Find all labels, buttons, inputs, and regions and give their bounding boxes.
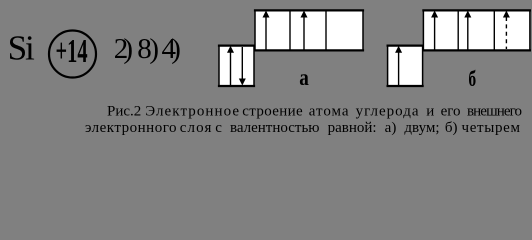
- svg-text:Электронное: Электронное: [145, 104, 240, 120]
- svg-text:и: и: [426, 104, 434, 120]
- svg-text:2): 2): [114, 33, 133, 65]
- diagram b: p-orbital row box: [422, 10, 531, 50]
- diagram a: up arrow in p cell 2: [301, 11, 308, 51]
- diagram b: s-orbital box: [387, 46, 424, 86]
- diagram a: p-row cell divider 2: [325, 10, 327, 50]
- diagram a: p-row cell divider 1: [289, 10, 291, 50]
- element symbol Si: [8, 29, 35, 68]
- nucleus charge label +14: [56, 33, 88, 71]
- diagram b: dashed up arrow in p cell 3: [503, 11, 510, 50]
- svg-text:слоя: слоя: [180, 120, 213, 136]
- diagram b: up arrow in p cell 2: [464, 11, 471, 51]
- diagram a: s-orbital box: [218, 46, 255, 86]
- svg-text:б: б: [468, 66, 476, 91]
- svg-text:электронного: электронного: [85, 120, 177, 136]
- svg-text:его: его: [441, 104, 461, 120]
- svg-text:а: а: [299, 65, 309, 90]
- diagram a: paired up arrow in s box: [227, 46, 234, 85]
- svg-text:четырем: четырем: [462, 120, 521, 136]
- svg-text:Si: Si: [8, 29, 35, 68]
- diagram a: paired down arrow in s box: [239, 47, 246, 86]
- label b: [468, 66, 476, 91]
- diagram a: up arrow in p cell 1: [263, 11, 270, 51]
- diagram b: up arrow in s box: [395, 46, 402, 85]
- svg-text:+14: +14: [56, 33, 88, 71]
- svg-text:8): 8): [137, 33, 158, 65]
- shell electron counts 2) 8) 4): [114, 33, 181, 65]
- diagram b: up arrow in p cell 1: [431, 11, 438, 51]
- caption line 1 text: [145, 104, 521, 120]
- diagram a: p-orbital row box: [254, 10, 364, 50]
- nucleus circle: [49, 31, 96, 78]
- svg-text:): ): [171, 33, 181, 65]
- svg-text:углерода: углерода: [356, 104, 420, 120]
- caption line 1 figure number: [107, 104, 141, 120]
- caption line 2: [85, 120, 521, 136]
- svg-text:строение: строение: [242, 104, 303, 120]
- svg-text:с валентностью равной: а) двум: с валентностью равной: а) двум;: [215, 120, 439, 136]
- diagram b: p-row cell divider 1: [457, 10, 459, 50]
- diagram b: p-row cell divider 2: [493, 10, 495, 50]
- svg-text:атома: атома: [309, 104, 350, 120]
- svg-text:Рис.2: Рис.2: [107, 104, 141, 120]
- label a: [299, 65, 309, 90]
- svg-text:б): б): [445, 120, 458, 136]
- svg-text:внешнего: внешнего: [467, 104, 521, 120]
